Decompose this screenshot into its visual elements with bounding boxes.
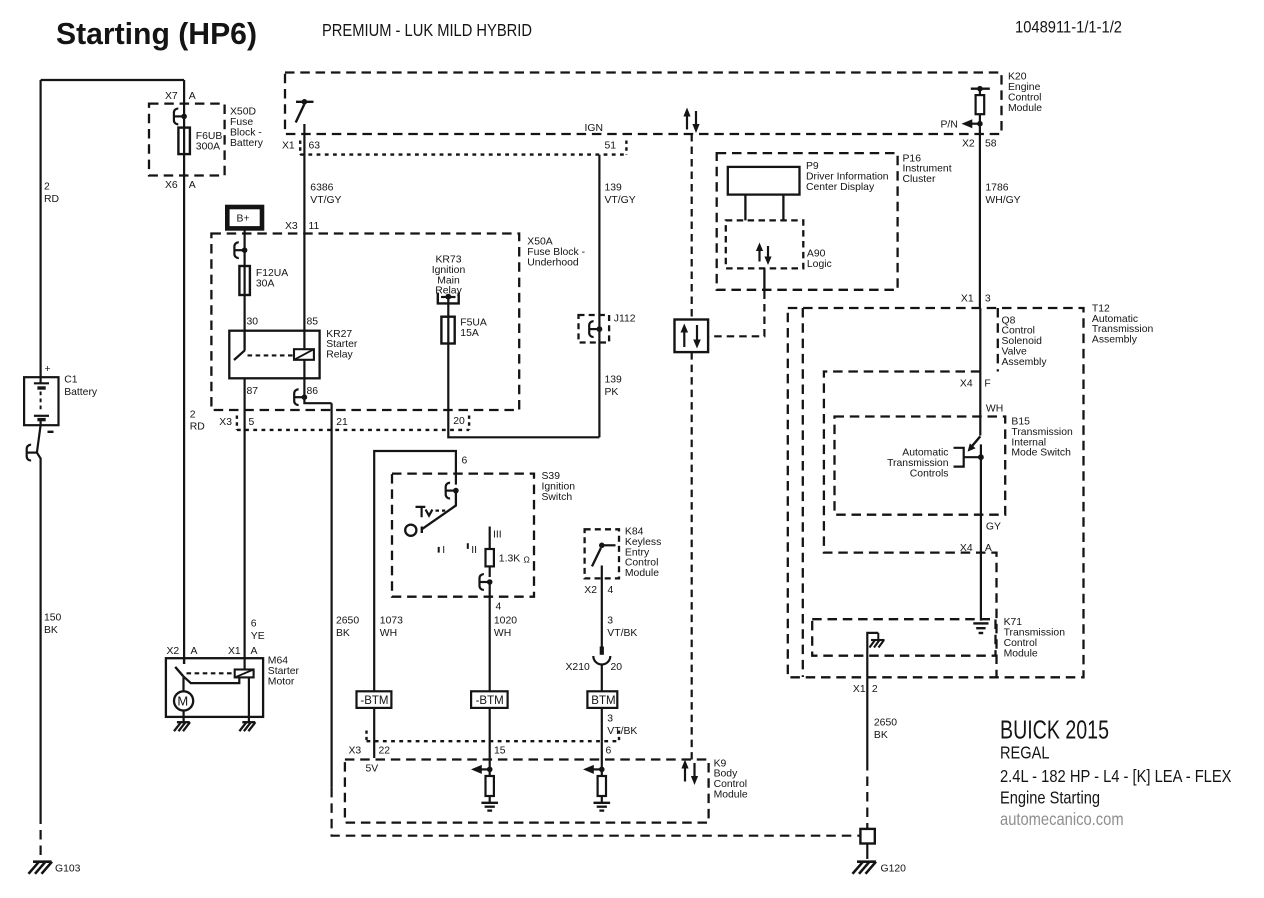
svg-text:X1: X1: [228, 646, 241, 657]
svg-text:X4: X4: [960, 378, 973, 389]
svg-text:15A: 15A: [460, 328, 479, 339]
wire dashed to G103: [39, 815, 41, 860]
label X2 58: [962, 139, 997, 150]
wire 150 BK battery to G103: [37, 453, 41, 815]
svg-text:58: 58: [985, 139, 997, 150]
svg-text:Module: Module: [625, 568, 659, 579]
svg-text:I: I: [442, 545, 445, 556]
relay KR73 contact symbol: [438, 293, 459, 304]
label 139 PK: [605, 374, 623, 398]
svg-text:YE: YE: [251, 631, 265, 642]
serial data arrows in A90: [756, 243, 772, 266]
connector tick X1: [299, 141, 301, 155]
svg-text:K9: K9: [714, 758, 727, 769]
svg-text:X3: X3: [349, 745, 362, 756]
terminal box -BTM (1073): [357, 691, 392, 708]
svg-text:III: III: [493, 530, 502, 541]
label X7 A: [165, 91, 196, 102]
connector hook at J112: [589, 321, 602, 337]
svg-text:1786: 1786: [985, 183, 1008, 194]
svg-text:M: M: [177, 694, 188, 709]
resistor inside K20: [971, 86, 990, 134]
svg-text:Ω: Ω: [524, 555, 530, 565]
junction dot at ATC bracket: [978, 454, 984, 460]
label 3 VT/BK: [607, 615, 637, 639]
keyless entry module K84 dashed box: [585, 529, 619, 578]
svg-text:BTM: BTM: [591, 695, 615, 707]
svg-text:Transmission: Transmission: [1004, 628, 1066, 639]
svg-text:Fuse Block -: Fuse Block -: [527, 247, 585, 258]
svg-text:BUICK 2015: BUICK 2015: [1000, 714, 1109, 744]
label Automatic Transmission Controls: [887, 448, 949, 480]
wire battery positive top run: [41, 79, 185, 81]
svg-text:X3: X3: [219, 417, 232, 428]
svg-text:WH: WH: [986, 403, 1003, 414]
svg-text:86: 86: [307, 386, 319, 397]
wire P9 left leg: [744, 195, 746, 221]
svg-text:Underhood: Underhood: [527, 257, 579, 268]
svg-text:F: F: [984, 378, 990, 389]
connector hook S39 pin 6: [446, 483, 459, 499]
svg-text:5: 5: [249, 417, 255, 428]
label 6386 VT/GY: [310, 183, 341, 207]
svg-text:WH/GY: WH/GY: [985, 195, 1020, 206]
label X210 20: [566, 662, 623, 673]
svg-text:T12: T12: [1092, 303, 1110, 314]
svg-text:F12UA: F12UA: [256, 268, 288, 279]
label B15 Transmission Internal Mode Switch: [1011, 417, 1073, 459]
label M64 Starter Motor: [268, 656, 300, 688]
svg-text:Body: Body: [714, 769, 738, 780]
label C1 Battery: [64, 375, 98, 399]
wire P9 right leg: [782, 195, 784, 221]
solenoid coil M64: [235, 670, 254, 678]
S39 key switch blade: [422, 491, 456, 529]
svg-text:20: 20: [453, 416, 465, 427]
mechanical dashed link M64: [187, 672, 235, 674]
svg-text:Mode Switch: Mode Switch: [1011, 448, 1071, 459]
svg-text:P9: P9: [806, 161, 819, 172]
ground under motor: [174, 722, 190, 731]
wire relay pin 85: [303, 331, 305, 350]
label X1 A (M64): [228, 646, 258, 657]
fuse F12UA 30A: [239, 266, 250, 295]
svg-text:Controls: Controls: [910, 468, 949, 479]
X1 connector dotted line under K20: [300, 153, 626, 155]
svg-text:C1: C1: [64, 375, 78, 386]
svg-text:Automatic: Automatic: [902, 448, 948, 459]
svg-text:BK: BK: [336, 628, 350, 639]
wire 1073 WH from S39 pin 6: [374, 451, 456, 758]
svg-text:3: 3: [607, 714, 613, 725]
svg-text:Transmission: Transmission: [887, 458, 949, 469]
svg-text:2: 2: [872, 684, 878, 695]
label X50D Fuse Block - Battery: [230, 106, 264, 149]
svg-text:G103: G103: [55, 864, 81, 875]
wire solenoid to ground: [248, 677, 250, 722]
label X1 63: [282, 141, 320, 152]
connector hook X50D input: [174, 109, 187, 125]
svg-text:X4: X4: [960, 543, 973, 554]
svg-text:Starter: Starter: [268, 666, 300, 677]
serial data arrows in gateway: [681, 324, 701, 349]
starter motor M64: [166, 658, 263, 717]
mode switch B15 dashed box: [835, 417, 1006, 515]
label 6 YE: [251, 619, 265, 643]
svg-text:WH: WH: [380, 628, 397, 639]
svg-text:1073: 1073: [380, 615, 403, 626]
svg-text:Logic: Logic: [807, 259, 832, 270]
internal ground hook in K71: [867, 633, 878, 677]
label A90 Logic: [807, 249, 832, 270]
label K71 Transmission Control Module: [1004, 617, 1066, 659]
label F6UB 300A: [196, 131, 223, 152]
wire motor to ground: [183, 711, 185, 723]
svg-text:B+: B+: [237, 214, 250, 225]
label X50A Fuse Block - Underhood: [527, 237, 585, 269]
svg-text:Cluster: Cluster: [903, 174, 936, 185]
label 1020 WH: [494, 615, 517, 639]
svg-text:6: 6: [606, 745, 612, 756]
svg-text:Q8: Q8: [1002, 315, 1016, 326]
svg-text:X2: X2: [167, 646, 180, 657]
label X2 A (M64): [167, 646, 198, 657]
dashed wire to G120: [866, 761, 868, 829]
svg-text:Ignition: Ignition: [432, 265, 466, 276]
svg-text:IGN: IGN: [585, 123, 603, 134]
control solenoid valve assembly Q8 dashed edges: [803, 308, 998, 677]
svg-text:P16: P16: [903, 153, 922, 164]
svg-text:87: 87: [247, 386, 259, 397]
svg-text:Control: Control: [1002, 326, 1036, 337]
svg-text:II: II: [471, 545, 477, 556]
svg-text:X3: X3: [285, 221, 298, 232]
svg-text:150: 150: [44, 613, 62, 624]
ground termination in K71: [973, 623, 988, 633]
label 3 VT/BK (below BTM): [607, 714, 637, 738]
mode switch blade B15: [968, 436, 981, 451]
label Q8 Control Solenoid Valve Assembly: [1002, 315, 1048, 368]
svg-text:M64: M64: [268, 656, 288, 667]
wire 2650 BK dashed segment: [332, 788, 861, 836]
ignition switch S39 dashed box: [392, 474, 534, 597]
label KR27 Starter Relay: [326, 329, 358, 361]
wire KR73 to F5UA: [447, 297, 449, 317]
svg-text:Module: Module: [1008, 103, 1042, 114]
svg-text:GY: GY: [986, 521, 1001, 532]
label 2650 BK (left): [336, 615, 359, 639]
svg-text:X6: X6: [165, 180, 178, 191]
svg-text:51: 51: [605, 141, 617, 152]
connector X4 dashed boundary: [824, 372, 997, 678]
wire 1020 WH: [489, 582, 491, 741]
svg-text:30: 30: [247, 317, 259, 328]
wire G120 box to ground: [866, 844, 868, 860]
svg-text:Keyless: Keyless: [625, 537, 661, 548]
label K20 Engine Control Module: [1008, 72, 1042, 114]
wire 1786 WH/GY: [979, 134, 981, 308]
inline connector X210: [593, 647, 610, 665]
svg-text:X2: X2: [584, 585, 597, 596]
wire mode switch common: [980, 444, 982, 620]
svg-text:K71: K71: [1004, 617, 1023, 628]
dashed serial data bus to K9: [691, 352, 693, 759]
serial data arrows in K20: [683, 108, 699, 134]
svg-text:3: 3: [607, 615, 613, 626]
connector hook S39 resistor out: [479, 574, 492, 590]
svg-text:Transmission: Transmission: [1092, 324, 1154, 335]
svg-text:Ignition: Ignition: [542, 481, 576, 492]
serial data arrows in K9: [681, 760, 698, 786]
transmission control module K71 dashed box: [812, 619, 995, 656]
label K84 Keyless Entry Control Module: [625, 527, 661, 580]
svg-text:2.4L - 182 HP - L4 - [K] LEA -: 2.4L - 182 HP - L4 - [K] LEA - FLEX: [1000, 766, 1232, 786]
wire 6386 VT/GY from K20 to relay 85: [303, 124, 305, 331]
svg-text:1.3K: 1.3K: [499, 554, 520, 565]
svg-text:22: 22: [379, 745, 391, 756]
label 1.3K ohm: [499, 554, 530, 565]
svg-text:Control: Control: [1008, 92, 1042, 103]
svg-text:KR73: KR73: [436, 255, 462, 266]
label 2 RD: [44, 182, 59, 206]
svg-text:3: 3: [985, 293, 991, 304]
label X3 22: [349, 745, 391, 756]
svg-text:30A: 30A: [256, 279, 275, 290]
body control module K9 dashed box: [345, 760, 709, 823]
fuse block X50D dashed box: [149, 104, 225, 176]
node P/N with arrow: [941, 119, 983, 130]
label 1073 WH: [380, 615, 403, 639]
svg-text:K84: K84: [625, 527, 644, 538]
connector tick X3-5: [236, 416, 238, 430]
chassis ground symbol in K71: [870, 640, 885, 648]
label 1786 WH/GY: [985, 183, 1020, 207]
wire battery negative slant: [37, 425, 41, 452]
svg-text:139: 139: [605, 374, 623, 385]
svg-text:X1: X1: [282, 141, 295, 152]
svg-text:automecanico.com: automecanico.com: [1000, 809, 1124, 829]
svg-text:P/N: P/N: [941, 120, 958, 131]
svg-text:F6UB: F6UB: [196, 131, 223, 142]
svg-text:G120: G120: [881, 863, 907, 874]
svg-text:Solenoid: Solenoid: [1002, 336, 1043, 347]
svg-text:Control: Control: [625, 558, 659, 569]
svg-text:11: 11: [309, 221, 320, 232]
svg-text:1020: 1020: [494, 615, 517, 626]
label 139 VT/GY: [605, 183, 636, 207]
svg-text:Block -: Block -: [230, 127, 262, 138]
wire 2650 BK to G120: [866, 677, 868, 761]
connector tick right of 6: [618, 731, 620, 742]
terminal box -BTM (1020): [471, 691, 508, 708]
svg-text:VT/BK: VT/BK: [607, 628, 637, 639]
connector tick right of 20: [468, 416, 470, 430]
serial data gateway box: [675, 320, 709, 353]
svg-text:Battery: Battery: [230, 138, 264, 149]
svg-text:Starter: Starter: [326, 339, 358, 350]
svg-text:S39: S39: [542, 471, 561, 482]
svg-text:Main: Main: [437, 275, 460, 286]
ground G103: [29, 862, 53, 874]
svg-text:KR27: KR27: [326, 329, 352, 340]
svg-text:139: 139: [605, 183, 623, 194]
wire 2650 BK relay 86 to G120 run: [331, 403, 333, 788]
S39 key glyph: [416, 507, 446, 517]
display P9: [728, 167, 800, 195]
svg-text:X50A: X50A: [527, 237, 552, 248]
svg-text:Engine Starting: Engine Starting: [1000, 788, 1100, 808]
svg-text:Fuse: Fuse: [230, 117, 253, 128]
svg-text:A: A: [191, 646, 198, 657]
label X3 11: [285, 221, 320, 232]
switch contact in M64: [175, 658, 184, 676]
wire B+ to relay 30: [244, 228, 246, 330]
svg-text:Control: Control: [714, 779, 748, 790]
svg-text:PK: PK: [605, 387, 619, 398]
svg-text:Control: Control: [1004, 638, 1038, 649]
wire 1786 into T12: [979, 308, 981, 436]
svg-text:F5UA: F5UA: [460, 318, 487, 329]
svg-text:A90: A90: [807, 249, 826, 260]
svg-text:A: A: [189, 91, 196, 102]
svg-text:X1: X1: [961, 293, 974, 304]
label X3 5: [219, 417, 254, 428]
connector hook on battery negative: [27, 445, 37, 461]
ground G120: [853, 862, 877, 874]
battery C1: [24, 377, 58, 425]
svg-text:2650: 2650: [336, 615, 359, 626]
label 150 BK: [44, 613, 62, 637]
svg-text:300A: 300A: [196, 141, 220, 152]
wire F6UB feed down to starter motor X2: [183, 80, 185, 658]
svg-text:Entry: Entry: [625, 547, 650, 558]
motor M winding: [174, 677, 193, 711]
label X4 A: [960, 543, 992, 554]
svg-text:+: +: [45, 364, 51, 375]
svg-text:2650: 2650: [874, 717, 897, 728]
starter relay KR27 box: [229, 331, 319, 379]
label F12UA 30A: [256, 268, 288, 289]
dashed serial data bus from K20: [691, 134, 693, 320]
svg-text:Module: Module: [1004, 648, 1038, 659]
svg-text:Relay: Relay: [326, 350, 353, 361]
svg-text:4: 4: [496, 601, 502, 612]
resistor 1.3K in S39: [486, 527, 494, 578]
pullup with arrow on pin 6: [583, 741, 606, 802]
svg-text:1048911-1/1-1/2: 1048911-1/1-1/2: [1015, 18, 1122, 37]
pullup with arrow on pin 15: [471, 741, 494, 802]
svg-text:X7: X7: [165, 91, 178, 102]
bracket automatic transmission controls: [954, 448, 981, 467]
B+ terminal box: [227, 207, 262, 228]
svg-text:Driver Information: Driver Information: [806, 171, 889, 182]
wire 3 VT/BK from K84: [601, 566, 603, 647]
logic block A90 dashed box: [726, 220, 804, 268]
svg-text:Starting (HP6): Starting (HP6): [56, 16, 257, 51]
svg-text:VT/GY: VT/GY: [310, 195, 341, 206]
svg-text:X1: X1: [853, 684, 866, 695]
svg-text:2: 2: [44, 182, 50, 193]
S39 key cylinder circle: [405, 525, 416, 536]
label KR73 Ignition Main Relay: [432, 255, 466, 297]
relay switch blade: [234, 331, 245, 360]
svg-text:5V: 5V: [366, 764, 379, 775]
engine control module K20 dashed box: [285, 73, 1002, 135]
svg-text:K20: K20: [1008, 72, 1027, 83]
svg-text:Assembly: Assembly: [1092, 335, 1138, 346]
svg-text:15: 15: [494, 745, 506, 756]
svg-text:A: A: [251, 646, 258, 657]
relay coil KR27: [294, 349, 314, 360]
label X4 F: [960, 378, 991, 389]
svg-text:BK: BK: [44, 625, 58, 636]
svg-text:RD: RD: [44, 194, 59, 205]
connector dotted line X3 (body control): [367, 740, 620, 742]
svg-text:Module: Module: [714, 790, 748, 801]
label X1 2 (K71): [853, 684, 878, 695]
svg-text:-BTM: -BTM: [476, 695, 504, 707]
connector hook at relay 86: [294, 389, 307, 405]
svg-text:21: 21: [336, 417, 348, 428]
svg-text:Valve: Valve: [1002, 347, 1027, 358]
svg-text:Battery: Battery: [64, 387, 98, 398]
relay mechanical dashed link: [248, 354, 294, 356]
svg-text:Center Display: Center Display: [806, 182, 875, 193]
svg-text:Internal: Internal: [1011, 437, 1046, 448]
svg-text:WH: WH: [494, 628, 511, 639]
svg-text:Engine: Engine: [1008, 82, 1041, 93]
svg-text:20: 20: [611, 662, 623, 673]
connector dotted line X3 (fuse block bottom): [237, 429, 469, 431]
label S39 Ignition Switch: [542, 471, 576, 503]
svg-text:Transmission: Transmission: [1011, 427, 1073, 438]
svg-text:4: 4: [608, 585, 614, 596]
svg-text:PREMIUM - LUK MILD HYBRID: PREMIUM - LUK MILD HYBRID: [322, 20, 532, 40]
connector tick 51: [625, 141, 627, 155]
svg-text:85: 85: [307, 317, 319, 328]
svg-text:6386: 6386: [310, 183, 333, 194]
wire IGN 139 VT/GY down through J112: [598, 155, 600, 438]
ground inside K9 (pin 15): [481, 803, 498, 811]
connector box G120: [860, 829, 874, 844]
wire X210 to BTM: [601, 665, 603, 742]
dashed serial data wire from A90: [708, 292, 764, 337]
label X6 A: [165, 180, 196, 191]
svg-text:J112: J112: [614, 314, 636, 325]
svg-text:63: 63: [309, 141, 321, 152]
svg-text:6: 6: [462, 456, 468, 467]
svg-text:Switch: Switch: [542, 492, 573, 503]
svg-text:BK: BK: [874, 730, 888, 741]
svg-text:Automatic: Automatic: [1092, 314, 1138, 325]
fuse F5UA 15A: [441, 317, 454, 344]
svg-text:RD: RD: [190, 421, 205, 432]
label X1 3: [961, 293, 991, 304]
switch inside K84: [592, 543, 616, 567]
label 2650 BK (right): [874, 717, 897, 741]
instrument cluster P16 dashed box: [717, 153, 898, 290]
wire A90 down: [763, 268, 765, 291]
svg-text:X50D: X50D: [230, 106, 256, 117]
label P9 Driver Information Center Display: [806, 161, 889, 193]
transmission assembly T12 outer dashed box: [788, 308, 1084, 677]
svg-text:VT/BK: VT/BK: [607, 726, 637, 737]
fuse block underhood X50A dashed box: [211, 234, 519, 411]
terminal box BTM (3 VT/BK): [587, 691, 617, 708]
connector tick X3-22: [365, 731, 367, 742]
svg-text:X2: X2: [962, 139, 975, 150]
connector hook at B+ feed: [234, 242, 247, 258]
